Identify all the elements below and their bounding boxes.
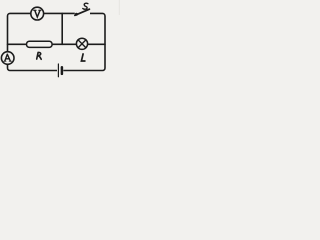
battery long plate <box>57 64 59 77</box>
ammeter A circle <box>1 52 14 65</box>
wire voltmeter drop <box>61 13 63 44</box>
voltmeter V circle <box>31 7 44 20</box>
resistor R box <box>27 41 53 47</box>
wire gap for switch <box>75 12 90 16</box>
switch pivot dot <box>75 13 78 16</box>
label S glyph <box>83 3 88 9</box>
paper background <box>0 0 120 82</box>
wire outer loop <box>8 13 106 70</box>
label A glyph <box>5 54 11 61</box>
scan edge smudge top-right <box>119 0 120 15</box>
battery short thick plate <box>61 67 64 74</box>
wire gap for battery <box>57 68 63 72</box>
label R glyph <box>37 52 42 59</box>
lamp L circle <box>76 38 87 49</box>
label V glyph <box>35 10 40 17</box>
label L glyph <box>81 54 85 61</box>
wire middle branch <box>8 43 106 45</box>
switch S blade <box>75 9 90 15</box>
lamp X cross <box>78 40 86 48</box>
